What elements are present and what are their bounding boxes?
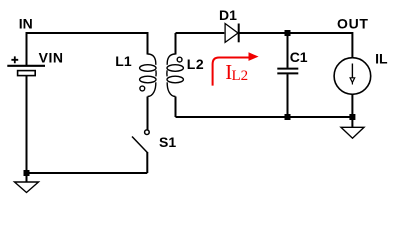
svg-text:IN: IN bbox=[19, 16, 33, 32]
svg-text:IL: IL bbox=[375, 50, 388, 66]
svg-text:L1: L1 bbox=[115, 53, 132, 69]
svg-text:VIN: VIN bbox=[39, 49, 64, 65]
svg-text:L2: L2 bbox=[232, 68, 249, 84]
wire bbox=[27, 33, 148, 65]
ground bbox=[15, 182, 39, 193]
wire bbox=[351, 120, 353, 127]
inductor L2 bbox=[167, 33, 184, 117]
wire bbox=[27, 172, 148, 174]
wire bbox=[147, 97, 149, 130]
svg-text:OUT: OUT bbox=[337, 16, 369, 32]
junction bbox=[285, 114, 291, 120]
junction bbox=[24, 170, 30, 176]
capacitor C1 bbox=[277, 33, 298, 117]
svg-text:S1: S1 bbox=[159, 134, 176, 150]
wire bbox=[176, 32, 225, 34]
current source IL bbox=[334, 58, 371, 114]
wire bbox=[176, 116, 353, 118]
junction bbox=[285, 30, 291, 36]
current arrow IL2 bbox=[213, 52, 259, 85]
svg-text:D1: D1 bbox=[219, 7, 237, 23]
switch S1 bbox=[132, 130, 149, 173]
voltage source VIN bbox=[7, 56, 45, 182]
inductor L1 bbox=[140, 54, 157, 97]
wire bbox=[240, 33, 353, 58]
diode D1 bbox=[225, 24, 239, 43]
junction bbox=[349, 114, 355, 120]
svg-text:C1: C1 bbox=[290, 49, 308, 65]
ground bbox=[341, 127, 364, 138]
svg-text:L2: L2 bbox=[187, 56, 205, 72]
